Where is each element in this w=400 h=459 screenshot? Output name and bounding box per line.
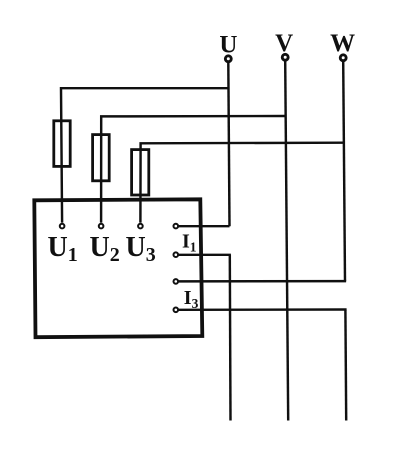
svg-text:U1: U1 (48, 232, 78, 266)
terminal circle I1 output (174, 252, 179, 257)
terminal circle U2 (99, 224, 104, 229)
wire: I1 input (terminal to U phase) (179, 225, 230, 227)
svg-text:U2: U2 (90, 232, 120, 266)
fuse FU2 body (93, 135, 110, 181)
svg-text:I3: I3 (184, 287, 199, 311)
wire: I3 input (terminal to W phase) (179, 280, 347, 283)
terminal circle I1 input (174, 224, 179, 229)
terminal circle I3 input (174, 279, 179, 284)
wire: U phase vertical lower segment (I1 output down to bottom) (229, 255, 232, 421)
svg-text:W: W (330, 30, 355, 57)
wire: W phase vertical lower segment (I3 output down to bottom) (344, 310, 347, 421)
terminal circle V (282, 54, 288, 60)
terminal circle U3 (138, 224, 143, 229)
wire: I1 output (terminal to U phase lower) (179, 254, 231, 256)
wire: fuse FU1 branch (U phase left to corner, down through fuse 1 to terminal U1) (61, 88, 229, 222)
terminal circle I3 output (174, 308, 179, 313)
svg-text:V: V (275, 30, 293, 57)
terminal circle W (340, 55, 346, 61)
wire: fuse FU2 branch (V phase left to corner, down through fuse 2 to terminal U2) (101, 116, 285, 223)
fuse FU1 body (54, 121, 70, 167)
wire: I3 output (terminal to W phase lower) (179, 308, 347, 311)
wire: fuse FU3 branch (W phase left to corner, down through fuse 3 to terminal U3) (140, 143, 343, 223)
wire: W phase vertical upper segment (terminal W down to I3 input wire) (343, 61, 345, 281)
terminal circle U1 (60, 224, 65, 229)
meter box outline (34, 199, 202, 337)
svg-text:I1: I1 (182, 230, 197, 254)
wire: U phase vertical upper segment (terminal U down to I1 input wire) (228, 62, 229, 226)
wire: V phase vertical (terminal V to bottom) (285, 61, 288, 421)
svg-text:U3: U3 (126, 232, 156, 266)
fuse FU3 body (132, 150, 149, 195)
terminal circle U (225, 56, 231, 62)
